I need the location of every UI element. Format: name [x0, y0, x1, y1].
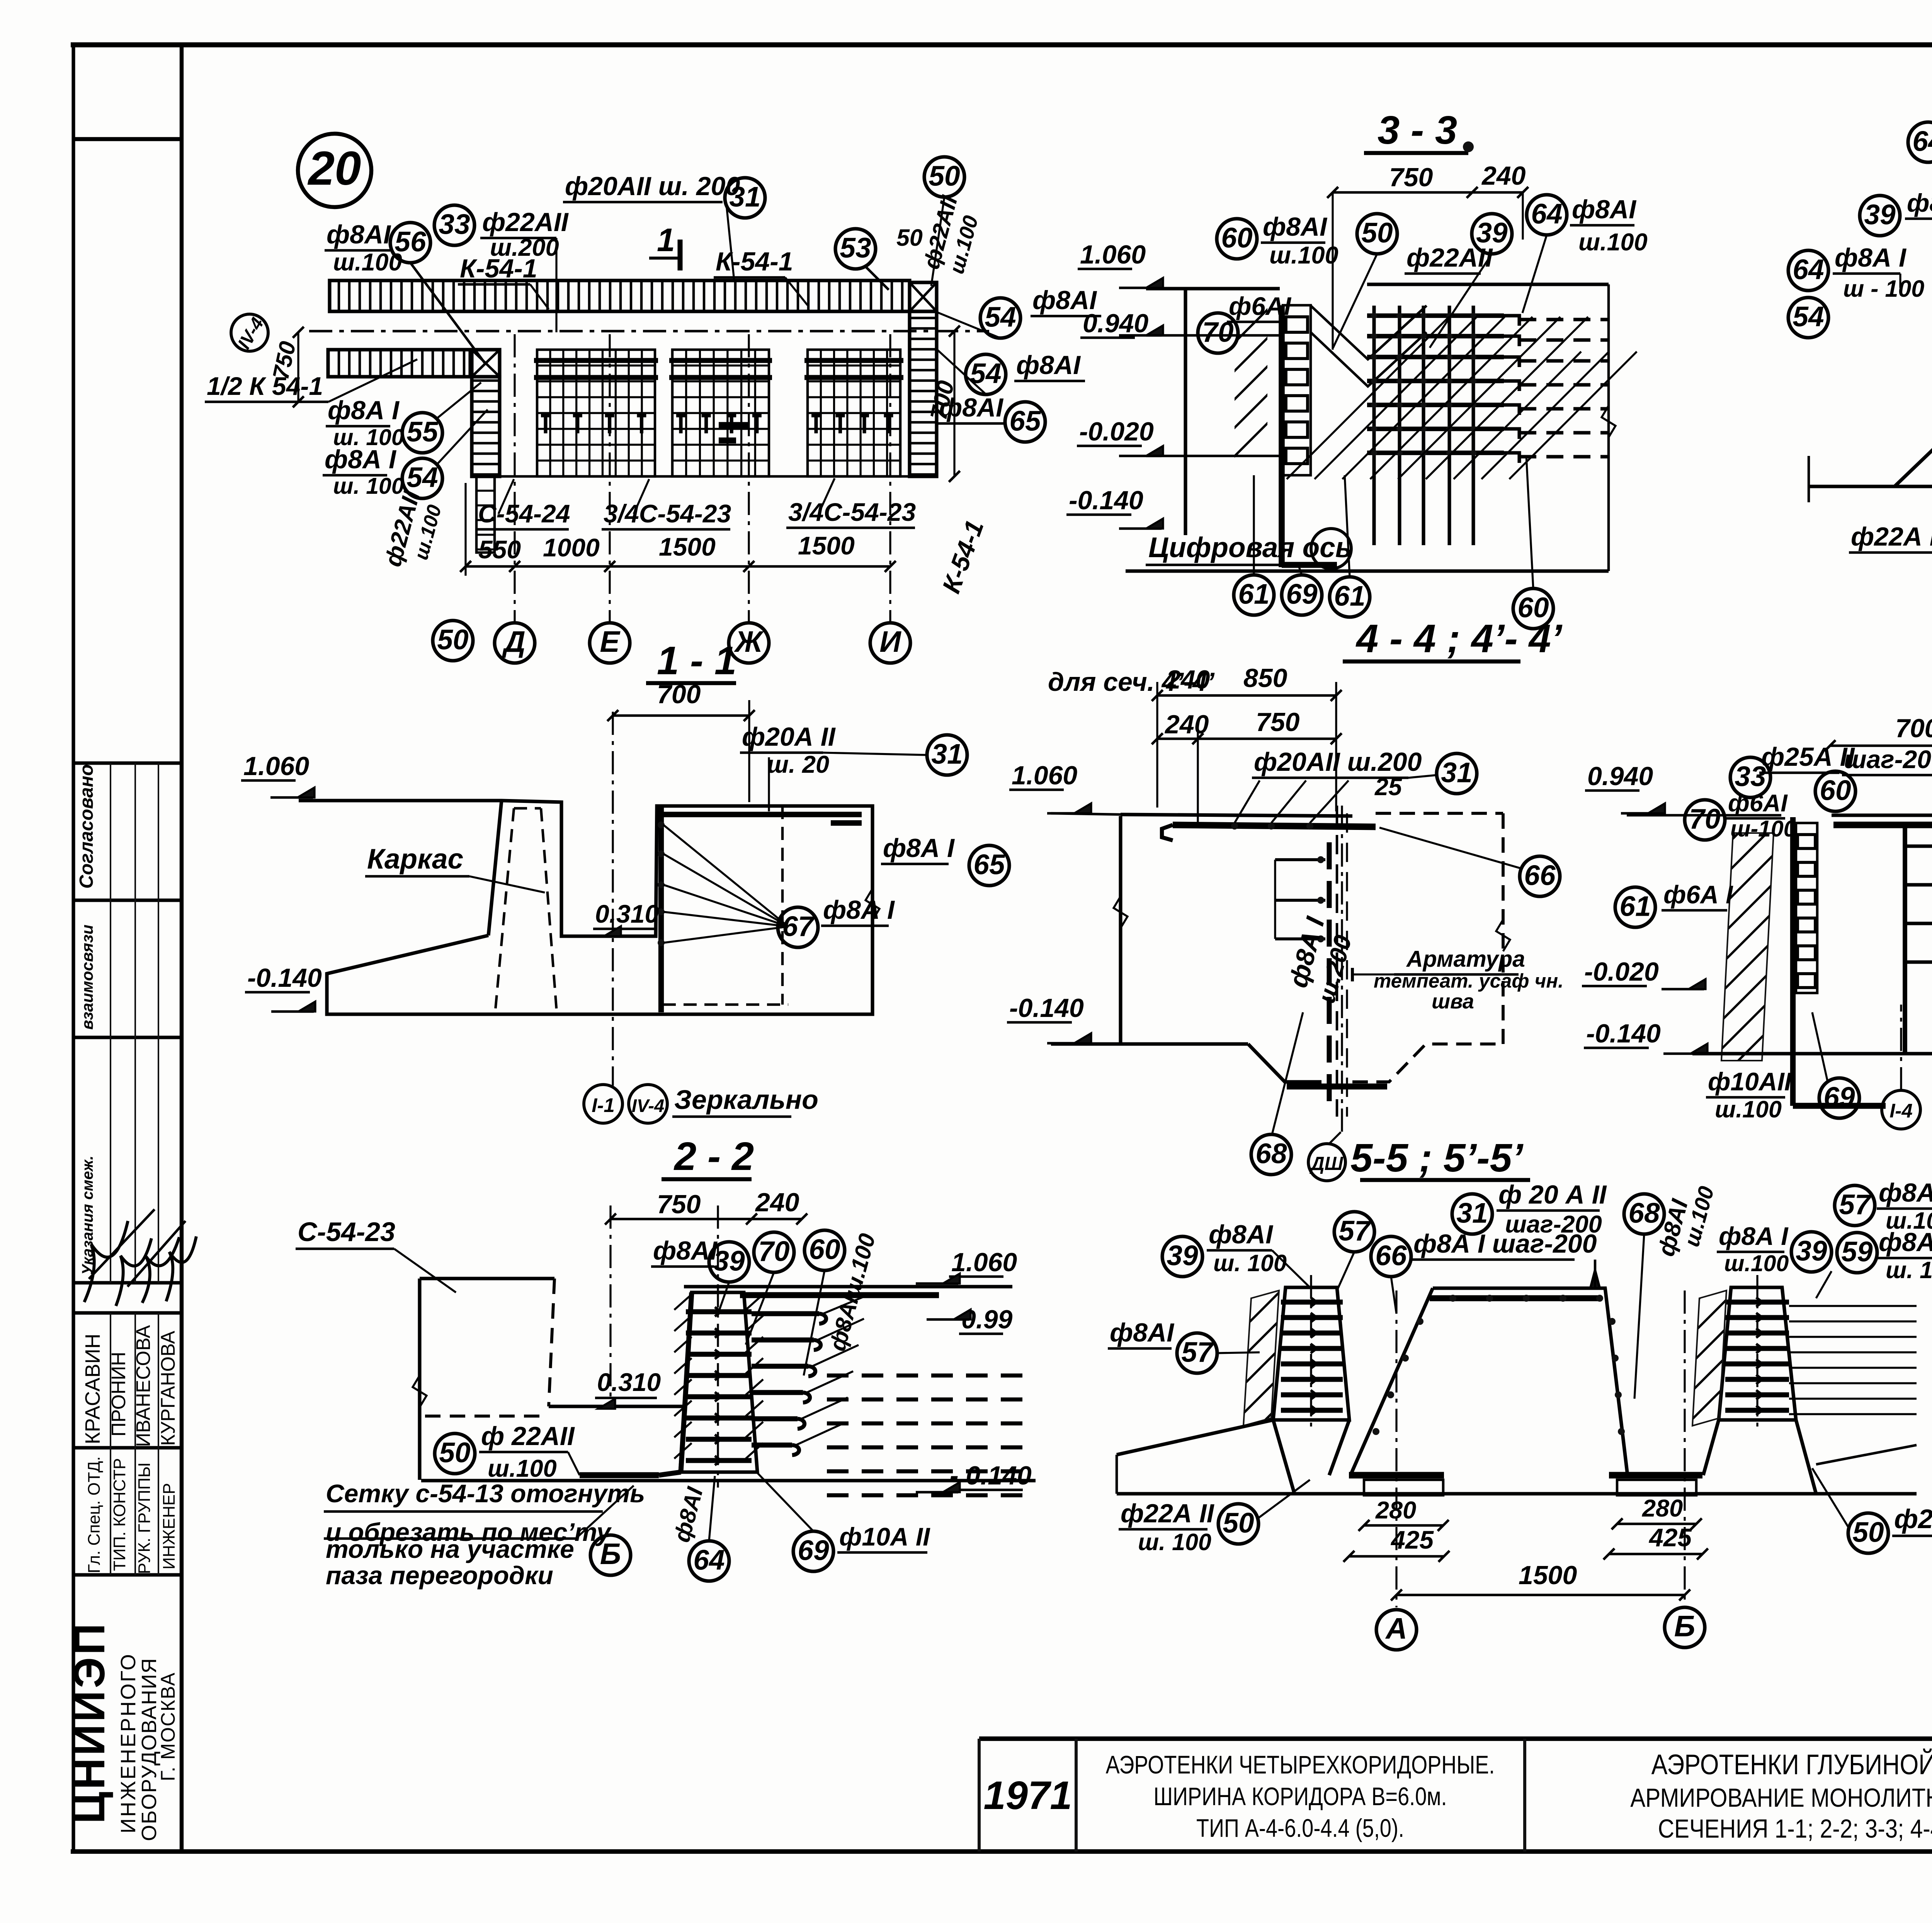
- svg-text:ф8АI: ф8АI: [1110, 1318, 1175, 1347]
- svg-text:АРМИРОВАНИЕ МОНОЛИТНЫХ УЗЛОВ.: АРМИРОВАНИЕ МОНОЛИТНЫХ УЗЛОВ. Узел 20.: [1630, 1784, 1932, 1812]
- svg-text:1.060: 1.060: [1012, 761, 1077, 790]
- plan: block bottom ties: [719, 422, 750, 428]
- 4-4 outline: [1051, 813, 1121, 814]
- svg-text:25: 25: [1374, 774, 1402, 801]
- 5-5 left ladder column: [1273, 1287, 1349, 1420]
- svg-text:0.940: 0.940: [1083, 309, 1148, 338]
- svg-text:ф8А I: ф8А I: [823, 895, 895, 925]
- svg-text:50: 50: [896, 224, 923, 251]
- plan: dimension line: [466, 565, 890, 568]
- 1-1 break marks: [866, 889, 879, 920]
- drawing frame left border: [180, 45, 184, 1852]
- svg-text:Арматура: Арматура: [1406, 946, 1525, 972]
- svg-text:55: 55: [406, 416, 439, 447]
- plan: rebar grid block 1: [537, 350, 655, 476]
- 7-7 labels left: [1615, 887, 1655, 927]
- plan: axis dash-dot verticals: [514, 334, 515, 623]
- sheet name cell: [1630, 1749, 1932, 1843]
- svg-text:КРАСАВИН: КРАСАВИН: [81, 1334, 104, 1444]
- svg-text:54: 54: [406, 462, 438, 493]
- svg-text:КУРГАНОВА: КУРГАНОВА: [157, 1331, 179, 1446]
- svg-text:39: 39: [1796, 1235, 1827, 1267]
- svg-text:700: 700: [1895, 714, 1932, 743]
- svg-text:1500: 1500: [798, 531, 855, 560]
- svg-text:550: 550: [478, 535, 521, 564]
- 7-7 right wall bars + fan: [1905, 844, 1932, 848]
- svg-text:С-54-24: С-54-24: [478, 499, 570, 528]
- svg-text:ф22АII: ф22АII: [482, 207, 569, 237]
- object name cell: [1106, 1750, 1495, 1842]
- svg-text:ш-100: ш-100: [1730, 816, 1796, 842]
- svg-text:1: 1: [657, 222, 675, 258]
- svg-text:паза перегородки: паза перегородки: [326, 1561, 553, 1590]
- svg-text:39: 39: [1167, 1240, 1198, 1271]
- svg-text:ф22А II: ф22А II: [1851, 522, 1932, 551]
- svg-text:ф20АII ш.200: ф20АII ш.200: [1254, 747, 1422, 777]
- svg-text:ИНЖЕНЕРНОГО: ИНЖЕНЕРНОГО: [117, 1653, 140, 1833]
- 2-2 left dashed block: [420, 1277, 554, 1280]
- svg-text:К-54-1: К-54-1: [460, 254, 537, 283]
- 3-3 leader lines: [1333, 254, 1377, 348]
- svg-text:Г. МОСКВА: Г. МОСКВА: [157, 1672, 179, 1781]
- svg-text:4 - 4 ; 4’- 4’: 4 - 4 ; 4’- 4’: [1355, 616, 1563, 661]
- svg-text:60: 60: [1221, 222, 1252, 253]
- svg-text:ф22А II: ф22А II: [1894, 1504, 1932, 1534]
- 5-5 left hatch strip: [1243, 1291, 1279, 1426]
- svg-text:Б: Б: [1674, 1610, 1696, 1643]
- 3-3 callouts bottom: [1234, 575, 1274, 615]
- plan: lower hatched band: [328, 350, 470, 377]
- svg-text:70: 70: [1689, 803, 1720, 835]
- svg-text:39: 39: [713, 1245, 745, 1277]
- svg-text:53: 53: [840, 232, 871, 264]
- 5-5 right ladder column: [1719, 1287, 1796, 1420]
- svg-text:240: 240: [1481, 161, 1526, 190]
- svg-text:ш - 100: ш - 100: [1843, 275, 1924, 302]
- svg-text:Ж: Ж: [733, 625, 764, 658]
- svg-text:ДШ: ДШ: [1309, 1153, 1343, 1174]
- svg-text:700: 700: [657, 680, 701, 709]
- svg-text:ш. 100: ш. 100: [1886, 1257, 1932, 1283]
- svg-text:ф6АI: ф6АI: [1728, 790, 1788, 817]
- 5-5 portal outline: [1433, 1288, 1628, 1475]
- svg-text:70: 70: [1202, 316, 1233, 348]
- svg-text:1.060: 1.060: [1080, 240, 1146, 269]
- svg-text:ш. 100: ш. 100: [333, 473, 404, 499]
- svg-text:1500: 1500: [1519, 1561, 1577, 1590]
- svg-text:850: 850: [1243, 663, 1287, 693]
- 3-3 left outline: [1146, 287, 1280, 290]
- svg-text:ф8А I шаг-200: ф8А I шаг-200: [1413, 1229, 1597, 1258]
- svg-text:65: 65: [1009, 405, 1041, 437]
- svg-text:69: 69: [1823, 1081, 1855, 1113]
- svg-text:ш. 20: ш. 20: [767, 751, 829, 778]
- svg-text:64: 64: [693, 1544, 724, 1576]
- svg-text:57: 57: [1839, 1189, 1872, 1220]
- 3-3 V notch joint: [1311, 306, 1427, 359]
- 4-4 joint dashed pair: [1336, 806, 1338, 1117]
- plan: callout 31 top: [725, 178, 765, 218]
- svg-text:57: 57: [1181, 1336, 1214, 1368]
- svg-text:ИВАНЕСОВА: ИВАНЕСОВА: [132, 1325, 154, 1447]
- 7-7 left hatched band: [1721, 833, 1774, 1061]
- stamp strip top divider: [73, 137, 182, 141]
- plan: axis circles: [495, 623, 535, 663]
- 2-2 bottom callouts: [590, 1535, 631, 1575]
- plan: callout IV-4 left: [231, 314, 268, 351]
- 7-7 bottom slab: [1692, 1052, 1932, 1055]
- 4-4 callout 68 + DSh: [1251, 1134, 1291, 1175]
- 5-5 left column legs: [1273, 1420, 1294, 1494]
- svg-text:ф6АI: ф6АI: [1229, 292, 1292, 320]
- 1-1 rebar vertical bold: [658, 808, 664, 1012]
- stamp signatures (handwritten): [84, 1221, 128, 1302]
- svg-text:54: 54: [1793, 301, 1824, 332]
- svg-text:68: 68: [1628, 1197, 1660, 1229]
- svg-text:I-1: I-1: [592, 1094, 615, 1116]
- svg-text:1971: 1971: [983, 1773, 1072, 1818]
- 5-5 top centre labels: [1452, 1194, 1492, 1234]
- plan: callout 50 bottom: [433, 621, 473, 661]
- svg-text:ф8АI: ф8АI: [1572, 195, 1637, 224]
- svg-text:60: 60: [1820, 775, 1851, 806]
- svg-text:взаимосвязи: взаимосвязи: [78, 925, 96, 1030]
- 1-1 fan lines to 67: [663, 825, 788, 927]
- 4-4 dashed box right: [1376, 812, 1503, 815]
- svg-text:ф8АI: ф8АI: [1016, 350, 1081, 380]
- svg-text:39: 39: [1476, 217, 1508, 248]
- svg-text:31: 31: [1456, 1197, 1488, 1229]
- svg-text:ТИП. КОНСТР: ТИП. КОНСТР: [110, 1458, 129, 1571]
- svg-text:I-4: I-4: [1889, 1100, 1913, 1122]
- svg-text:ф8А I: ф8А I: [883, 833, 955, 863]
- 1-1 dashed karkas trapezoid: [514, 807, 541, 810]
- 6-6 left slope and base: [1809, 485, 1895, 488]
- svg-text:50: 50: [929, 160, 960, 192]
- 6-6 callout cluster top left: [1908, 122, 1932, 162]
- svg-text:59: 59: [1841, 1236, 1873, 1267]
- svg-text:ф 20 А II: ф 20 А II: [1498, 1180, 1607, 1209]
- svg-text:5-5 ; 5’-5’: 5-5 ; 5’-5’: [1350, 1136, 1524, 1180]
- svg-text:ф8А I: ф8А I: [328, 396, 400, 425]
- svg-text:ПРОНИН: ПРОНИН: [107, 1352, 129, 1437]
- svg-text:61: 61: [1619, 891, 1651, 922]
- svg-text:Е: Е: [600, 625, 621, 658]
- svg-text:Согласовано: Согласовано: [76, 764, 97, 889]
- plan: left wall ladder lower: [476, 476, 495, 553]
- svg-text:50: 50: [1852, 1517, 1884, 1548]
- svg-text:шва: шва: [1432, 990, 1474, 1013]
- svg-text:50: 50: [1361, 217, 1393, 248]
- svg-text:С-54-23: С-54-23: [298, 1217, 395, 1247]
- node 20 detail circle: [298, 134, 371, 207]
- 5-5 right hatch strip: [1692, 1291, 1726, 1426]
- svg-text:54: 54: [985, 301, 1016, 333]
- page bottom border: [71, 1849, 1932, 1854]
- svg-text:СЕЧЕНИЯ 1-1; 2-2; 3-3; 4-4; 5-: СЕЧЕНИЯ 1-1; 2-2; 3-3; 4-4; 5-5; 6-6; 7-…: [1658, 1814, 1932, 1843]
- svg-text:0.310: 0.310: [595, 899, 659, 928]
- svg-text:3/4С-54-23: 3/4С-54-23: [788, 498, 916, 526]
- plan: vertical 750 dim at left: [297, 332, 299, 402]
- 3-3 centre column: [1279, 305, 1285, 567]
- svg-text:39: 39: [1864, 199, 1896, 230]
- 5-5 right echelon lines: [1789, 1305, 1917, 1307]
- svg-text:ф6А I: ф6А I: [1663, 880, 1733, 909]
- svg-text:1 - 1: 1 - 1: [657, 638, 736, 683]
- 1-1 callout 67: [778, 907, 818, 947]
- 5-5 axis circles: [1395, 1291, 1397, 1607]
- svg-text:ш.100: ш.100: [1269, 242, 1338, 269]
- 1-1 concrete outline: [299, 801, 872, 1014]
- svg-text:69: 69: [798, 1535, 829, 1566]
- plan: left wall column: [472, 350, 500, 377]
- svg-text:ф8АIшаг-100: ф8АIшаг-100: [1907, 189, 1932, 217]
- svg-text:31: 31: [931, 738, 963, 770]
- 1-1 rebar top bar: [661, 812, 862, 817]
- svg-text:66: 66: [1375, 1240, 1407, 1271]
- 2-2 echelon bars right: [752, 1311, 819, 1316]
- svg-text:ЦНИИЭП: ЦНИИЭП: [65, 1621, 114, 1824]
- svg-text:ф8АI: ф8АI: [1263, 212, 1328, 241]
- 4-4 callout 66: [1520, 856, 1560, 896]
- svg-text:-0.020: -0.020: [1584, 957, 1659, 986]
- 1-1 centreline: [612, 712, 614, 1086]
- svg-text:56: 56: [395, 226, 426, 257]
- svg-text:ф8АI: ф8АI: [327, 220, 391, 249]
- 1-1 dashed inner right wall: [781, 806, 784, 1005]
- svg-text:ф8АI: ф8АI: [939, 393, 1004, 422]
- svg-text:ТИП А-4-6.0-4.4 (5,0).: ТИП А-4-6.0-4.4 (5,0).: [1196, 1814, 1404, 1842]
- plan: top band corner block: [910, 282, 937, 311]
- svg-text:61: 61: [1238, 578, 1269, 610]
- page top border: [71, 43, 1932, 48]
- svg-text:ш.100: ш.100: [488, 1455, 557, 1482]
- svg-text:К-54-1: К-54-1: [716, 247, 793, 276]
- svg-text:750: 750: [1256, 707, 1300, 737]
- svg-text:50: 50: [1223, 1507, 1254, 1539]
- svg-text:А: А: [1385, 1612, 1407, 1645]
- svg-text:ф8А I: ф8А I: [1879, 1178, 1932, 1207]
- 5-5 left callouts: [1162, 1236, 1202, 1277]
- svg-text:РУК. ГРУППЫ: РУК. ГРУППЫ: [135, 1462, 154, 1574]
- 5-5 portal inner dots left side: [1417, 1318, 1423, 1325]
- svg-text:шаг-200: шаг-200: [1844, 745, 1932, 774]
- svg-text:1000: 1000: [543, 533, 600, 562]
- svg-text:ф 22АII: ф 22АII: [481, 1421, 575, 1451]
- svg-text:20: 20: [308, 142, 361, 195]
- plan: callout 50 top right: [924, 157, 964, 197]
- 1-1 bottom ref circles: [584, 1085, 622, 1123]
- svg-text:ф20АII ш. 200: ф20АII ш. 200: [565, 172, 740, 201]
- 5-5 callout 68: [1624, 1194, 1664, 1234]
- 2-2 column flank hatch: [674, 1294, 692, 1310]
- svg-text:60: 60: [809, 1234, 840, 1265]
- svg-text:IV-4: IV-4: [632, 1095, 664, 1116]
- 2-2 central trapezoid column: [680, 1292, 757, 1472]
- svg-text:ф20А II: ф20А II: [742, 722, 836, 752]
- svg-text:-0.140: -0.140: [1586, 1019, 1661, 1048]
- svg-text:- 0.140: - 0.140: [950, 1461, 1032, 1490]
- 2-2 dashed bars right: [827, 1374, 1036, 1377]
- 7-7 top slab: [1627, 814, 1781, 817]
- svg-text:67: 67: [782, 911, 815, 942]
- 5-5 portal bottom pads: [1349, 1472, 1444, 1479]
- svg-text:ш. 100: ш. 100: [1138, 1529, 1211, 1555]
- 7-7 ladder strip: [1790, 817, 1796, 1106]
- svg-text:ф25А II: ф25А II: [1761, 742, 1855, 772]
- svg-text:65: 65: [973, 849, 1005, 880]
- 2-2 column centreline: [717, 1205, 719, 1488]
- plan: callout 33: [434, 205, 474, 245]
- plan: centreline: [309, 330, 989, 333]
- 5-5 bottom right callouts: [1848, 1513, 1888, 1553]
- svg-text:только на участке: только на участке: [326, 1535, 574, 1563]
- svg-text:-0.140: -0.140: [1009, 993, 1084, 1023]
- svg-text:61: 61: [1334, 580, 1365, 612]
- svg-text:0.940: 0.940: [1587, 762, 1653, 791]
- 5-5 bottom slab line: [1117, 1492, 1917, 1495]
- svg-text:1.060: 1.060: [951, 1248, 1017, 1277]
- svg-text:Зеркально: Зеркально: [674, 1085, 818, 1115]
- 6-6 bottom slab: [1809, 485, 1932, 488]
- svg-text:3 - 3: 3 - 3: [1378, 108, 1457, 152]
- svg-text:ф8А I: ф8А I: [325, 445, 397, 474]
- svg-text:33: 33: [439, 209, 470, 240]
- svg-text:Д: Д: [502, 625, 526, 658]
- svg-text:57: 57: [1338, 1215, 1371, 1246]
- svg-text:64: 64: [1793, 254, 1824, 285]
- svg-text:Гл. Спец. ОТД.: Гл. Спец. ОТД.: [85, 1456, 104, 1573]
- svg-text:-0.140: -0.140: [247, 963, 322, 993]
- svg-text:-0.020: -0.020: [1079, 417, 1154, 446]
- 3-3 right grid block: [1367, 282, 1609, 286]
- svg-text:50: 50: [439, 1437, 470, 1468]
- svg-text:Каркас: Каркас: [367, 843, 463, 875]
- svg-text:750: 750: [657, 1190, 701, 1219]
- 5-5 column centrelines: [1310, 1275, 1312, 1432]
- svg-text:И: И: [879, 625, 901, 658]
- 4-4 inner rebar dashed bold: [1327, 842, 1332, 1105]
- svg-text:ф10А II: ф10А II: [839, 1522, 930, 1551]
- svg-text:31: 31: [1441, 757, 1472, 788]
- svg-text:1/2 К 54-1: 1/2 К 54-1: [207, 372, 323, 400]
- plan: right wall column: [910, 311, 937, 476]
- 2-2 callout 50 + label: [435, 1433, 475, 1474]
- svg-text:50: 50: [437, 624, 468, 655]
- svg-text:-0.140: -0.140: [1069, 486, 1143, 515]
- svg-text:ф8А I: ф8А I: [1835, 243, 1907, 272]
- svg-text:64: 64: [1531, 198, 1562, 230]
- svg-text:АЭРОТЕНКИ ЧЕТЫРЕХКОРИДОРНЫЕ.: АЭРОТЕНКИ ЧЕТЫРЕХКОРИДОРНЫЕ.: [1106, 1750, 1495, 1779]
- svg-text:ИНЖЕНЕР: ИНЖЕНЕР: [160, 1483, 179, 1569]
- 1-1 rebar dots: [658, 821, 665, 828]
- 5-5 right column leg: [1703, 1420, 1719, 1475]
- svg-text:ф8А I: ф8А I: [1719, 1222, 1789, 1250]
- svg-text:3/4С-54-23: 3/4С-54-23: [604, 499, 731, 528]
- 7-7 top rebar bold: [1833, 822, 1932, 828]
- 3-3 right edge dash + break: [1607, 284, 1610, 571]
- svg-text:240: 240: [755, 1188, 799, 1217]
- 2-2 bottom slab: [421, 1479, 1036, 1482]
- svg-text:2 - 2: 2 - 2: [673, 1134, 754, 1178]
- stamp strip outer left line: [71, 45, 75, 1852]
- 4-4 break on left wall: [1114, 896, 1128, 928]
- svg-text:ш.100: ш.100: [1715, 1096, 1782, 1122]
- stamp table upper box: [73, 761, 182, 765]
- svg-text:ф10АII: ф10АII: [1708, 1067, 1792, 1096]
- title block outline: [979, 1736, 1932, 1741]
- 5-5 left slope: [1117, 1420, 1273, 1455]
- svg-text:64: 64: [1912, 126, 1932, 157]
- svg-text:750: 750: [1389, 163, 1433, 192]
- 2-2 top slab right: [684, 1285, 1012, 1288]
- plan: right labels 54/54/65: [980, 298, 1020, 338]
- svg-text:1500: 1500: [659, 532, 716, 561]
- svg-text:240: 240: [1165, 665, 1210, 694]
- 7-7 right wall verticals: [1903, 823, 1907, 1054]
- svg-text:ШИРИНА КОРИДОРА В=6.0м.: ШИРИНА КОРИДОРА В=6.0м.: [1153, 1782, 1447, 1811]
- plan: rebar grid block 2: [672, 350, 769, 476]
- plan: rebar grid block 3: [808, 350, 900, 476]
- svg-text:66: 66: [1524, 860, 1556, 891]
- svg-text:Цифровая ось: Цифровая ось: [1148, 532, 1352, 563]
- plan: bottom edge line: [472, 475, 910, 478]
- 4-4 tick bars with dots: [1275, 858, 1325, 861]
- 3-3 callouts top: [1217, 219, 1257, 259]
- svg-text:31: 31: [729, 181, 760, 213]
- svg-text:АЭРОТЕНКИ ГЛУБИНОЙ Н=5,0м. Д: АЭРОТЕНКИ ГЛУБИНОЙ Н=5,0м. ДНИЩЕ.: [1651, 1749, 1932, 1781]
- svg-text:70: 70: [758, 1236, 789, 1267]
- svg-text:ф22А II: ф22А II: [1121, 1499, 1215, 1528]
- plan: top hatched band: [330, 281, 910, 311]
- svg-text:280: 280: [1642, 1495, 1683, 1522]
- 3-3 bottom slab line: [1126, 569, 1609, 573]
- 4-4 top rebar bold: [1173, 825, 1376, 827]
- 7-7 labels top: [1730, 757, 1770, 797]
- svg-text:ф8А I: ф8А I: [1879, 1228, 1932, 1257]
- svg-text:69: 69: [1286, 578, 1318, 610]
- plan: vertical 700 dim right: [953, 331, 955, 476]
- svg-text:68: 68: [1255, 1138, 1287, 1169]
- svg-text:темпеат. усаф чн.: темпеат. усаф чн.: [1374, 970, 1563, 992]
- svg-text:ф8АI: ф8АI: [1209, 1220, 1274, 1249]
- 3-3 left wall hatch: [1235, 305, 1267, 475]
- svg-text:0.310: 0.310: [597, 1368, 661, 1396]
- svg-text:ш.100: ш.100: [1578, 229, 1648, 256]
- plan: callout 53: [835, 229, 876, 269]
- 1-1 wall left slant: [488, 801, 502, 935]
- 3-3 diagonal hatch over grid: [1287, 317, 1449, 479]
- 4-4 bottom joint bars: [1287, 1083, 1387, 1090]
- svg-text:1.060: 1.060: [243, 752, 309, 781]
- svg-text:Сетку с-54-13 отогнуть: Сетку с-54-13 отогнуть: [326, 1479, 645, 1508]
- 2-2 f22AII bottom bar: [580, 1472, 659, 1478]
- svg-text:Б: Б: [600, 1537, 621, 1571]
- svg-text:ш.100: ш.100: [1724, 1251, 1789, 1276]
